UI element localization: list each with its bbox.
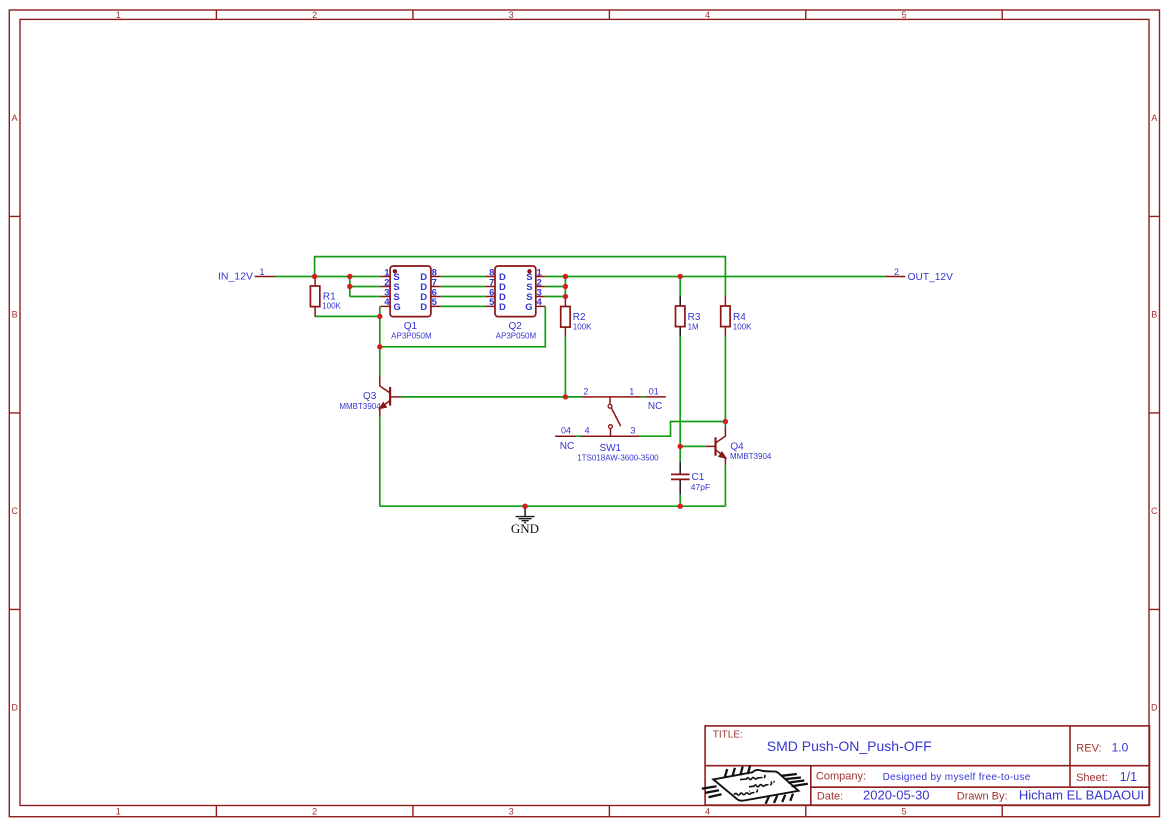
Q1 left pin names S S S G	[393, 272, 400, 313]
wire Q2 gate loop	[380, 306, 546, 346]
wire Q1-Q2 row1	[441, 276, 486, 278]
switch bottom contact circle	[609, 425, 613, 429]
svg-text:TITLE:: TITLE:	[713, 730, 743, 741]
node Q2 pin3 tie	[563, 294, 568, 299]
node R2 bottom / Q3 base / SW1	[563, 394, 568, 399]
wire node to Q4 collector	[724, 422, 726, 427]
svg-text:47pF: 47pF	[691, 482, 710, 492]
wire Q4 base	[680, 445, 706, 447]
svg-text:Hicham EL BADAOUI: Hicham EL BADAOUI	[1019, 788, 1144, 803]
Q2 left pin names D D D D	[499, 272, 506, 313]
svg-text:NC: NC	[560, 441, 574, 452]
svg-text:D: D	[11, 703, 18, 713]
svg-text:5: 5	[901, 806, 906, 816]
logo pins right	[782, 774, 808, 786]
svg-text:MMBT3904: MMBT3904	[339, 402, 381, 411]
resistor R4 body	[721, 306, 730, 327]
logo arabic text line1	[740, 775, 765, 780]
switch top stem	[609, 397, 611, 405]
wire ground rail	[380, 505, 726, 507]
svg-text:4: 4	[384, 297, 390, 308]
svg-text:1: 1	[259, 267, 264, 277]
svg-text:3: 3	[630, 426, 635, 436]
svg-text:100K: 100K	[322, 302, 341, 311]
svg-text:A: A	[1151, 113, 1157, 123]
wire Q3 base to SW1	[401, 396, 581, 398]
logo arabic text line3	[734, 789, 757, 795]
switch NC stub 04	[555, 435, 576, 437]
svg-text:2: 2	[583, 386, 588, 396]
svg-text:D: D	[499, 302, 506, 313]
row ticks left	[9, 216, 20, 609]
switch top contact circle	[608, 404, 612, 408]
node C1 bottom / ground rail	[678, 504, 683, 509]
capacitor C1 pins (black)	[679, 462, 681, 495]
svg-text:4: 4	[705, 806, 710, 816]
wire C1 bottom	[679, 495, 681, 507]
Q1 left pin numbers	[384, 267, 390, 308]
logo pins top	[725, 766, 751, 778]
svg-text:5: 5	[901, 10, 906, 20]
column ticks top	[216, 10, 1002, 19]
wire IN_12V to Q1 pin1	[275, 276, 381, 278]
Q1 right pin stubs	[431, 277, 441, 307]
mosfet Q1 body	[390, 266, 431, 317]
svg-text:Q3: Q3	[363, 391, 377, 402]
Q2 right pin names S S S G	[525, 272, 532, 313]
ground symbol stem	[524, 506, 526, 516]
Q1 pin1 marker dot	[393, 269, 397, 273]
switch blade	[611, 408, 620, 426]
svg-text:AP3P050M: AP3P050M	[496, 331, 537, 340]
svg-text:1: 1	[116, 806, 121, 816]
logo arabic text line2	[749, 781, 774, 787]
transistor Q4 base lead	[706, 445, 716, 447]
node gate / Q2 gate loop	[377, 344, 382, 349]
capacitor C1 bottom plate	[671, 478, 690, 480]
wire R2 bottom	[564, 337, 566, 397]
Q2 left pin stubs	[486, 277, 495, 307]
row letters right	[1151, 113, 1158, 713]
svg-text:B: B	[1151, 310, 1157, 320]
wire Q3 emitter down	[379, 416, 381, 506]
svg-text:SW1: SW1	[599, 443, 621, 454]
svg-text:Date:: Date:	[817, 790, 843, 802]
svg-text:Company:: Company:	[816, 770, 866, 782]
row letters left	[11, 113, 18, 713]
svg-text:GND: GND	[511, 521, 539, 536]
node Q1 pin2 tie	[347, 284, 352, 289]
svg-text:4: 4	[705, 10, 710, 20]
wire gate vertical	[379, 306, 381, 376]
svg-text:D: D	[1151, 703, 1158, 713]
mosfet Q2 body	[495, 266, 536, 317]
svg-text:04: 04	[561, 426, 571, 436]
capacitor C1 top plate	[671, 473, 690, 475]
svg-text:5: 5	[432, 297, 438, 308]
wire R1 bottom horizontal	[315, 315, 380, 317]
ground symbol bars	[516, 517, 535, 523]
transistor Q4 emitter arrow	[719, 452, 727, 459]
transistor Q4 base bar	[714, 437, 716, 455]
wire R3 top	[679, 277, 681, 296]
svg-text:C: C	[1151, 506, 1158, 516]
svg-text:1.0: 1.0	[1112, 741, 1129, 755]
wire SW1 pin3 step to Q4 collector node	[640, 422, 726, 437]
wire S-tie vertical right	[564, 277, 566, 298]
svg-text:1TS018AW-3600-3500: 1TS018AW-3600-3500	[577, 454, 659, 463]
column numbers bottom	[116, 806, 907, 816]
svg-text:5: 5	[489, 297, 495, 308]
resistor R2 pins	[564, 297, 566, 337]
logo chip body	[713, 770, 798, 801]
Q1 right pin names D D D D	[420, 272, 427, 313]
Q1 left pin stubs	[380, 277, 390, 307]
svg-text:100K: 100K	[573, 323, 592, 332]
wire R3 bottom to C1	[679, 337, 681, 462]
Q1 right pin numbers	[432, 267, 438, 308]
svg-text:2: 2	[312, 806, 317, 816]
wire R4 bottom	[724, 337, 726, 422]
transistor Q3 collector lead	[380, 376, 390, 393]
svg-text:100K: 100K	[733, 322, 752, 331]
title block divider under title row	[705, 765, 1149, 767]
title block rev/sheet cell divider	[1069, 726, 1071, 787]
svg-text:D: D	[420, 302, 427, 313]
wire Q1 pin3	[350, 296, 381, 298]
Q2 left pin numbers	[489, 267, 495, 308]
column numbers top	[116, 10, 907, 20]
wire NC stub to SW1 pin4	[576, 435, 581, 437]
svg-text:REV:: REV:	[1076, 742, 1101, 754]
svg-text:G: G	[393, 302, 400, 313]
node R1 bottom / gate	[377, 314, 382, 319]
wire S-tie vertical left	[349, 277, 351, 297]
node IN/R1/top-rail	[312, 274, 317, 279]
svg-text:01: 01	[649, 386, 659, 396]
Q2 pin1 marker dot	[527, 269, 531, 273]
transistor Q3 emitter lead	[380, 401, 390, 417]
svg-text:2: 2	[894, 267, 899, 277]
title block divider under company row	[811, 786, 1150, 788]
title block logo cell divider	[810, 766, 812, 805]
title block outer border	[705, 726, 1149, 805]
svg-text:R2: R2	[573, 312, 586, 323]
svg-text:Designed by myself free-to-use: Designed by myself free-to-use	[883, 772, 1031, 783]
svg-text:2: 2	[312, 10, 317, 20]
node Q2 pin1 tie	[563, 274, 568, 279]
row ticks right	[1149, 216, 1160, 609]
column ticks bottom	[216, 806, 1002, 817]
wire SW1 pin1 to NC stub	[641, 396, 645, 398]
wire main output	[545, 276, 886, 278]
svg-text:B: B	[12, 310, 18, 320]
resistor R2 body	[561, 307, 570, 328]
Q2 right pin numbers	[537, 267, 543, 308]
svg-text:NC: NC	[648, 401, 662, 412]
port OUT_12V pin	[886, 276, 905, 278]
port IN_12V pin	[255, 276, 275, 278]
resistor R3 pins (black)	[679, 296, 681, 337]
wire Q1-Q2 row2	[441, 286, 486, 288]
svg-text:SMD Push-ON_Push-OFF: SMD Push-ON_Push-OFF	[767, 738, 932, 754]
logo pins left	[702, 786, 722, 797]
svg-text:2020-05-30: 2020-05-30	[863, 788, 930, 803]
svg-text:1: 1	[629, 386, 634, 396]
resistor R1 pins	[314, 277, 316, 317]
node Q2 pin2 tie	[563, 284, 568, 289]
svg-text:A: A	[12, 113, 18, 123]
resistor R4 pins	[724, 296, 726, 337]
wire Q1-Q2 row4	[441, 305, 486, 307]
wire Q1-Q2 row3	[441, 296, 486, 298]
transistor Q4 collector lead	[716, 426, 726, 443]
svg-text:MMBT3904: MMBT3904	[730, 452, 772, 461]
logo pins bottom	[766, 794, 793, 804]
node R3 top	[678, 274, 683, 279]
wire Q2 pin2	[545, 286, 565, 288]
svg-text:Sheet:: Sheet:	[1076, 772, 1108, 784]
svg-text:C: C	[11, 506, 18, 516]
resistor R3 body	[676, 306, 685, 327]
resistor R1 body	[310, 286, 319, 307]
svg-text:3: 3	[509, 806, 514, 816]
svg-text:AP3P050M: AP3P050M	[391, 331, 432, 340]
switch SW1 top contact line pins 2-1	[581, 396, 641, 398]
svg-text:4: 4	[537, 297, 543, 308]
switch SW1 bottom contact line pins 4-3	[581, 435, 640, 437]
node R3 / Q4 base	[678, 444, 683, 449]
transistor Q3 emitter arrow	[379, 402, 387, 409]
svg-text:OUT_12V: OUT_12V	[908, 272, 954, 283]
transistor Q4 emitter lead	[716, 450, 726, 466]
svg-text:1: 1	[116, 10, 121, 20]
node R4 bottom / Q4 collector	[723, 419, 728, 424]
svg-text:1/1: 1/1	[1120, 770, 1137, 784]
node Q1 pin1 tie	[347, 274, 352, 279]
wire top rail from R1 node to R4 top	[315, 257, 726, 296]
svg-text:4: 4	[585, 426, 590, 436]
svg-text:3: 3	[509, 10, 514, 20]
svg-text:IN_12V: IN_12V	[218, 271, 253, 283]
transistor Q3 base lead	[390, 396, 401, 398]
wire Q2 pin3	[545, 296, 565, 298]
svg-text:G: G	[525, 302, 532, 313]
transistor Q3 base bar	[389, 387, 391, 406]
node GND	[522, 504, 527, 509]
wire Q4 emitter down	[724, 465, 726, 506]
svg-text:Drawn By:: Drawn By:	[957, 790, 1008, 802]
Q2 right pin stubs	[536, 277, 546, 307]
switch bottom stem	[610, 429, 612, 437]
wire Q1 pin2	[350, 286, 381, 288]
svg-text:1M: 1M	[688, 322, 699, 331]
switch NC stub 01	[645, 396, 665, 398]
